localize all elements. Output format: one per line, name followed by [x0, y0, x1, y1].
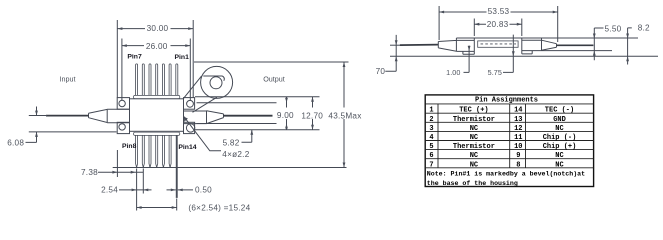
svg-text:(6×2.54) =15.24: (6×2.54) =15.24: [188, 204, 250, 213]
dim 53.53 ext left: [438, 6, 440, 40]
side left snout seam: [456, 39, 474, 41]
dim 5.50 arrows: [593, 34, 596, 56]
lid inner band: [478, 41, 518, 47]
dim 2.54 arrows: [132, 189, 149, 192]
svg-text:Output: Output: [263, 75, 285, 84]
svg-text:Chip (+): Chip (+): [543, 143, 577, 151]
dim 53.53 ext right: [557, 6, 559, 42]
dim 30.00 arrows: [117, 27, 193, 30]
dim 7.38 arrows: [112, 171, 135, 174]
dim 2.54 ext line a: [136, 169, 138, 211]
fiber from coil to output snout: [193, 97, 218, 112]
dim 5.75 arrow: [512, 51, 515, 56]
right ext line top (43.5 ref): [194, 61, 349, 63]
output fiber: [224, 115, 273, 117]
dim 7.38 line: [98, 171, 143, 173]
side left foot: [463, 51, 474, 54]
side output cone: [542, 39, 557, 51]
svg-text:Pin7: Pin7: [127, 53, 142, 60]
svg-text:12: 12: [514, 125, 522, 133]
right ext line flange top: [195, 96, 320, 98]
svg-text:70: 70: [376, 67, 386, 76]
dim 0.50 line: [167, 189, 194, 191]
svg-text:8.2: 8.2: [638, 24, 650, 33]
svg-text:26.00: 26.00: [146, 42, 168, 51]
side right snout seam: [522, 39, 542, 41]
dim 15.24 arrows: [137, 206, 177, 209]
dim 8.2 arrows: [626, 34, 629, 62]
output boss: [184, 111, 207, 124]
dim 30.00 extension right: [192, 20, 194, 97]
svg-text:4×ø2.2: 4×ø2.2: [222, 150, 249, 159]
dim 6.08 arrows: [35, 111, 38, 137]
svg-text:1: 1: [429, 107, 433, 115]
svg-text:1.00: 1.00: [446, 68, 460, 77]
svg-text:0.50: 0.50: [195, 186, 212, 195]
svg-text:10: 10: [514, 143, 522, 151]
dim 5.50 line: [594, 28, 603, 60]
svg-text:NC: NC: [470, 125, 478, 133]
svg-text:5: 5: [429, 143, 433, 151]
ear bottom-right: [184, 122, 195, 133]
dim 5.75 leader: [503, 35, 513, 73]
dim 5.82 arrow: [250, 130, 253, 135]
side body top line: [456, 37, 638, 39]
dim 2.54 line: [119, 189, 152, 191]
output ferrule cone: [207, 111, 224, 124]
right ext line 9.00 top: [197, 102, 277, 104]
dim 12.70 arrows: [311, 97, 314, 130]
right ext line 9.00 bottom: [197, 123, 277, 125]
svg-text:Note: Pin#1 is markedby a beve: Note: Pin#1 is markedby a bevel(notch)at: [427, 170, 585, 177]
svg-text:43.5Max: 43.5Max: [328, 112, 361, 121]
svg-text:3: 3: [429, 125, 433, 133]
svg-text:7.38: 7.38: [81, 168, 98, 177]
pin table frame: [425, 95, 593, 187]
side input fiber: [400, 44, 438, 47]
bottom ext line (43.5 ref): [113, 167, 347, 169]
svg-text:Thermistor: Thermistor: [453, 116, 495, 124]
side lid right edge: [522, 39, 532, 54]
dim 20.83 ext right: [521, 19, 523, 37]
dim 20.83 line: [474, 23, 522, 25]
svg-text:NC: NC: [470, 152, 478, 160]
pin14 thick pin: [176, 135, 178, 198]
fiber axis stub: [390, 44, 403, 46]
dim 1.00 arrow: [468, 46, 471, 51]
dim 6.08 ref line: [29, 131, 117, 133]
dim 70 arrows: [395, 40, 398, 61]
side output fiber: [557, 44, 594, 46]
table row lines: [425, 104, 593, 168]
svg-text:5.82: 5.82: [223, 139, 240, 148]
bottom pin shoulder bar: [134, 132, 180, 135]
dim 53.53 arrows: [439, 11, 558, 14]
svg-text:12.70: 12.70: [301, 111, 323, 120]
svg-text:13: 13: [514, 116, 522, 124]
svg-text:6: 6: [429, 152, 433, 160]
body: [130, 99, 184, 132]
dim 7.38 ext line: [116, 150, 118, 177]
dim 15.24 line: [137, 207, 177, 209]
dim 70 line: [385, 35, 396, 71]
hole top-left: [119, 100, 125, 106]
dim 30.00 extension left: [116, 20, 118, 97]
fiber tangent from body to coil: [184, 76, 202, 98]
dim 15.24 ext line: [176, 199, 178, 211]
dim 2.54 ext line b: [142, 169, 144, 194]
svg-text:Pin8: Pin8: [122, 143, 137, 150]
svg-text:30.00: 30.00: [147, 24, 169, 33]
dim 5.82 elbow: [242, 130, 252, 143]
svg-text:TEC (-): TEC (-): [545, 107, 574, 115]
svg-text:5.75: 5.75: [488, 68, 502, 77]
fiber coil inner: [210, 77, 222, 89]
svg-text:9.00: 9.00: [277, 111, 294, 120]
dim 8.2 line: [628, 28, 632, 65]
svg-text:6.08: 6.08: [7, 138, 24, 147]
svg-text:14: 14: [514, 107, 522, 115]
input fiber: [46, 115, 89, 117]
svg-text:Chip (-): Chip (-): [543, 134, 577, 142]
side input cone: [438, 38, 456, 51]
svg-text:TEC (+): TEC (+): [459, 107, 488, 115]
dim 26.00 extension right: [189, 39, 191, 101]
svg-text:Input: Input: [60, 75, 76, 84]
svg-text:Pin Assignments: Pin Assignments: [475, 97, 538, 105]
svg-text:4: 4: [429, 134, 433, 142]
svg-text:7: 7: [429, 161, 433, 169]
dim 26.00 arrows: [122, 44, 191, 47]
table column lines: [438, 104, 526, 168]
bottom pin row: [136, 135, 172, 167]
leader 4xd2.2: [184, 117, 221, 151]
svg-text:NC: NC: [555, 125, 563, 133]
dim 30.00 line: [117, 28, 193, 30]
svg-text:11: 11: [514, 134, 522, 142]
ear top-left: [117, 98, 129, 110]
fiber chord at coil top: [203, 76, 224, 81]
dim 20.83 arrows: [474, 23, 522, 26]
dim 26.00 extension left: [121, 39, 123, 101]
svg-text:NC: NC: [470, 161, 478, 169]
svg-text:2.54: 2.54: [101, 186, 118, 195]
dim 9.00 arrows: [285, 98, 288, 129]
dim 20.83 ext left: [473, 19, 475, 37]
hole bottom-right: [186, 124, 194, 132]
dim 9.00 line: [286, 97, 288, 130]
top pin shoulder bar: [134, 95, 180, 98]
svg-text:Pin1: Pin1: [175, 54, 190, 61]
svg-text:NC: NC: [470, 134, 478, 142]
svg-text:NC: NC: [555, 152, 563, 160]
svg-text:Pin14: Pin14: [178, 144, 196, 151]
dim 12.70 line: [312, 97, 314, 130]
svg-text:53.53: 53.53: [488, 7, 510, 16]
side lid left edge: [473, 39, 475, 55]
dim 26.00 line: [122, 45, 191, 47]
side right snout bottom ext: [522, 50, 612, 52]
top pin row: [136, 64, 178, 96]
dim 1.00 leader: [464, 46, 470, 73]
lid dashed centerline: [481, 43, 517, 45]
svg-text:8: 8: [516, 161, 520, 169]
ear bottom-left: [117, 122, 129, 133]
hole bottom-left: [119, 124, 125, 130]
fiber coil outer: [201, 66, 233, 98]
dim 6.08 line: [26, 107, 37, 143]
side left snout bottom: [456, 50, 474, 52]
dim 43.5Max arrows: [343, 62, 346, 168]
input boss: [107, 109, 129, 123]
svg-text:9: 9: [516, 152, 520, 160]
dim 0.50 arrows: [171, 189, 183, 192]
dim 43.5Max line: [343, 62, 345, 168]
svg-text:GND: GND: [553, 116, 566, 124]
baseline: [390, 55, 658, 57]
ear top-right: [184, 98, 195, 110]
dim 6.08 stub at fiber level: [29, 115, 47, 117]
svg-text:20.83: 20.83: [487, 20, 509, 29]
leader 4xd2.2 arrow: [184, 117, 188, 122]
svg-text:5.50: 5.50: [605, 25, 622, 34]
right ext line flange bottom: [195, 129, 320, 131]
svg-text:2: 2: [429, 116, 433, 124]
svg-text:Thermistor: Thermistor: [453, 143, 495, 151]
svg-text:NC: NC: [555, 161, 563, 169]
dim 53.53 line: [439, 11, 558, 13]
svg-text:the base of the housing: the base of the housing: [427, 180, 518, 187]
input ferrule cone: [89, 109, 108, 122]
hole top-right: [187, 100, 194, 107]
